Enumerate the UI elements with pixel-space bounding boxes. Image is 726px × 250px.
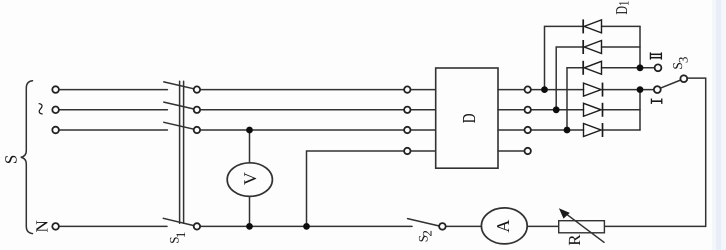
terminal D output 1 <box>525 86 531 92</box>
terminal D input 1 <box>404 86 410 92</box>
terminal supply L3 <box>52 127 59 134</box>
wire diode row3 to right bus <box>602 67 641 69</box>
wire phase L1 to D <box>200 89 404 91</box>
wire right bus upper (II) <box>639 26 641 67</box>
terminal D output 3 <box>525 127 531 133</box>
node bus C junction <box>564 127 571 134</box>
label I (position I) <box>651 99 662 104</box>
terminal D input 2 <box>404 107 410 113</box>
terminal D input 3 <box>404 127 410 133</box>
terminal D output 2 <box>525 107 531 113</box>
switch S1 blade pole 2 <box>164 102 194 109</box>
wire N after S1 <box>200 225 412 227</box>
wire bus A vertical <box>545 26 584 89</box>
wire diode row5 to right bus <box>603 109 641 111</box>
resistor R adjustment arrowhead <box>559 208 570 218</box>
voltmeter PV1 body <box>227 163 272 197</box>
wire diode row4 to right bus <box>603 89 641 91</box>
svg-text:D1: D1 <box>614 1 632 15</box>
svg-text:R: R <box>565 234 584 246</box>
switch S3 blade <box>660 80 680 88</box>
junction node dots <box>246 64 643 229</box>
wire phase L2 to D <box>200 109 404 111</box>
wire output row3 to diode row6 <box>531 129 584 131</box>
terminal S3 position II <box>655 64 662 71</box>
node I bus junction <box>637 86 644 93</box>
diode VD row5 (lower, cathode right) <box>584 103 603 117</box>
svg-text:~: ~ <box>29 102 55 115</box>
label S3 (switch) <box>670 57 691 70</box>
label II (position II) <box>650 52 661 59</box>
wire ammeter to resistor <box>527 225 559 227</box>
node voltmeter top junction <box>246 127 253 134</box>
terminal S1 pole 2 <box>194 107 200 113</box>
terminal D input 4 <box>404 148 410 154</box>
svg-text:A: A <box>493 220 513 233</box>
node voltmeter bottom junction <box>246 223 253 230</box>
label D (block) <box>458 113 479 123</box>
wire neutral N left <box>59 225 167 227</box>
wire voltmeter top lead <box>249 130 251 163</box>
node bus B junction <box>553 106 560 113</box>
svg-text:N: N <box>32 220 51 232</box>
wire output row2 to diode row5 <box>531 109 584 111</box>
wire voltmeter bottom lead <box>249 196 251 226</box>
node bus A junction <box>541 86 548 93</box>
diode VD row4 (lower, cathode right) <box>584 83 603 97</box>
diode VD row2 (upper, cathode left) <box>583 40 601 54</box>
wire right bus lower (I) <box>639 90 641 130</box>
ammeter PA1 body <box>481 208 527 244</box>
diode VD row1 (upper, cathode left) <box>583 19 601 33</box>
terminal supply L1 <box>52 86 59 93</box>
switch S1 blade pole 1 <box>164 82 194 89</box>
open terminal circles <box>52 64 687 229</box>
wire phase L3 left <box>59 129 167 131</box>
terminal S3 position I <box>654 86 661 93</box>
wire output row1 to diode row4 <box>531 89 584 91</box>
terminal S1 pole 3 <box>194 127 200 133</box>
label S1 (switch) <box>166 232 188 244</box>
wire D input stubs <box>411 89 436 91</box>
terminal D output 4 <box>525 148 531 154</box>
node II bus junction <box>637 64 644 71</box>
wire phase L1 left <box>59 89 167 91</box>
switch S2 blade <box>408 219 440 226</box>
wire diode row2 to right bus <box>602 46 641 48</box>
terminal S1 pole 1 <box>194 86 200 92</box>
wire S3 pivot to right edge <box>687 78 706 226</box>
resistor R adjustment arrow shaft <box>566 214 604 243</box>
wire stub to II contact <box>640 67 655 69</box>
svg-text:V: V <box>240 172 260 185</box>
wire phase L2 left <box>59 109 167 111</box>
terminal supply L2 <box>52 107 59 114</box>
right edge light band <box>712 0 726 250</box>
wire diode row1 to right bus <box>602 25 641 27</box>
wire S2 to ammeter <box>446 225 482 227</box>
brace for supply S <box>21 81 33 234</box>
wire neutral riser to D input 4 <box>307 151 405 226</box>
wire diode row6 to right bus <box>603 129 641 131</box>
node neutral riser junction <box>303 223 310 230</box>
switch S1 gang bar left <box>179 81 181 223</box>
transformer block D <box>436 68 498 168</box>
resistor R body <box>559 221 605 233</box>
wire bottom right to resistor <box>604 225 705 227</box>
switch S1 gang bar right <box>183 81 185 223</box>
label S2 (switch) <box>415 230 434 242</box>
wire D output stubs <box>498 89 525 91</box>
switch S1 blade pole 3 <box>164 122 194 129</box>
label D1 (diode group) <box>614 1 632 15</box>
diode VD row3 (upper, cathode left) <box>583 61 601 75</box>
wire bus B vertical <box>556 47 583 110</box>
wire stub to I contact <box>640 89 654 91</box>
svg-text:S: S <box>2 155 21 164</box>
svg-text:D: D <box>458 113 479 123</box>
switch S1 blade pole N <box>163 218 194 225</box>
wire phase L3 to D <box>200 129 404 131</box>
wire bus C vertical <box>567 68 583 130</box>
terminal S1 pole N <box>194 223 200 229</box>
terminal supply N <box>52 223 59 230</box>
terminal S2 pivot <box>439 223 446 230</box>
diode VD row6 (lower, cathode right) <box>584 123 603 137</box>
terminal S3 pivot <box>680 75 687 82</box>
